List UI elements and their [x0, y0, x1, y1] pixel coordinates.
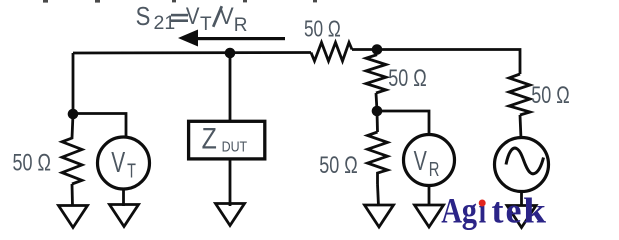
- wire: top bus right segment with corner to source branch: [352, 50, 520, 75]
- label formula S21 = VT/VR: [136, 2, 248, 36]
- svg-text:ı: ı: [479, 191, 487, 231]
- ground G6 under source: [507, 206, 536, 228]
- arrow shaft: [196, 37, 285, 40]
- node top junction dot: [372, 44, 383, 55]
- wire: R5 bottom to source: [520, 115, 521, 139]
- wire: source bottom to ground: [520, 192, 523, 207]
- ground G5 under VR: [415, 205, 444, 227]
- wire: node A to VT meter: [73, 114, 126, 139]
- source sine symbol: [506, 148, 544, 174]
- svg-text:50 Ω: 50 Ω: [12, 150, 50, 176]
- svg-text:R: R: [429, 157, 440, 180]
- wire: R1 bottom to ground: [71, 184, 74, 206]
- resistor R5 50ohm source series: [509, 74, 530, 115]
- ground G2 under VT: [110, 205, 139, 227]
- svg-text:g: g: [462, 191, 478, 231]
- wire: VR meter to ground: [428, 186, 431, 207]
- logo red dot on i: [479, 200, 486, 207]
- svg-text:e: e: [506, 191, 522, 231]
- cropped text remnant marks along top edge: [43, 0, 317, 3]
- svg-text:S: S: [136, 2, 151, 31]
- svg-text:50 Ω: 50 Ω: [531, 83, 569, 109]
- svg-text:T: T: [127, 159, 136, 182]
- svg-text:V: V: [186, 3, 200, 30]
- wire: R4 bottom to ground: [378, 184, 379, 206]
- svg-text:50 Ω: 50 Ω: [319, 153, 357, 179]
- wire: R3 bottom to node B: [376, 93, 377, 111]
- svg-text:t: t: [492, 191, 504, 231]
- ground G4 under R4: [365, 205, 394, 227]
- resistor R4 50ohm mid lower shunt: [368, 132, 388, 184]
- arrow S21 direction: [178, 30, 198, 47]
- label VR inside meter: [414, 146, 440, 180]
- svg-text:50 Ω: 50 Ω: [388, 66, 426, 92]
- ground G1 left: [59, 206, 88, 228]
- svg-text:A: A: [441, 192, 462, 232]
- wire: ZDUT bottom to ground: [229, 160, 232, 206]
- voltmeter VR circle: [404, 135, 455, 186]
- svg-text:DUT: DUT: [222, 138, 248, 154]
- node A junction dot: [68, 109, 79, 120]
- svg-text:V: V: [219, 2, 234, 29]
- svg-text:Z: Z: [202, 121, 217, 155]
- label VT inside meter: [111, 147, 136, 182]
- svg-text:R: R: [234, 15, 248, 36]
- resistor R2 50ohm series horizontal: [311, 43, 352, 62]
- svg-text:k: k: [523, 191, 546, 231]
- resistor R3 50ohm mid upper: [366, 50, 386, 94]
- svg-text:V: V: [414, 146, 427, 177]
- label ZDUT inside box: [202, 121, 248, 155]
- ground G3 under ZDUT: [216, 204, 245, 226]
- node ZDUT junction dot: [225, 48, 236, 59]
- voltmeter VT circle: [98, 137, 150, 189]
- svg-text:V: V: [111, 147, 125, 179]
- wire: top bus left segment: [73, 51, 311, 54]
- ZDUT box: [189, 121, 265, 159]
- wire: left vertical drop: [72, 53, 75, 114]
- wire: node B down to R4: [376, 111, 379, 132]
- svg-text:T: T: [200, 14, 212, 35]
- wire: ZDUT stem from top bus: [229, 53, 232, 120]
- source SRC circle: [495, 138, 549, 192]
- wire: node B to VR meter: [377, 111, 429, 136]
- svg-text:50 Ω: 50 Ω: [304, 17, 341, 42]
- resistor R1 50ohm left shunt: [62, 114, 82, 184]
- logo Agitek watermark: [441, 191, 546, 232]
- node B junction dot: [372, 106, 383, 117]
- wire: VT meter to ground: [122, 189, 125, 206]
